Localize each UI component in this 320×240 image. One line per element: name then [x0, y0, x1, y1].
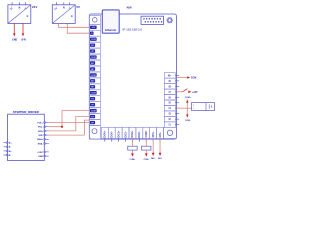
svg-text:ENA+: ENA+ — [37, 138, 44, 141]
svg-text:+VDC: +VDC — [37, 152, 43, 154]
svg-text:1: 1 — [193, 105, 194, 107]
svg-text:NIA: NIA — [127, 5, 133, 9]
svg-text:Ethernet: Ethernet — [105, 28, 116, 32]
svg-text:DO0-: DO0- — [109, 131, 113, 137]
svg-text:DO1-: DO1- — [123, 131, 127, 137]
svg-text:COM-: COM- — [185, 120, 191, 122]
svg-text:DO2+: DO2+ — [130, 130, 134, 137]
svg-text:I0+: I0+ — [168, 74, 172, 77]
svg-text:AO: AO — [91, 62, 94, 65]
svg-text:24V-: 24V- — [158, 132, 162, 137]
svg-text:DIR+: DIR+ — [38, 131, 44, 133]
svg-text:~: ~ — [10, 6, 13, 11]
svg-text:PUL-: PUL- — [38, 127, 43, 129]
svg-text:COM+: COM+ — [130, 159, 137, 161]
svg-text:DO0+: DO0+ — [103, 130, 107, 137]
svg-text:=: = — [26, 14, 28, 18]
svg-text:COM: COM — [191, 78, 196, 80]
svg-text:5V: 5V — [76, 5, 80, 9]
svg-text:COM+: COM+ — [185, 97, 192, 99]
svg-text:DO: DO — [91, 45, 94, 47]
svg-text:COM: COM — [91, 57, 96, 59]
svg-text:COM: COM — [144, 131, 148, 137]
svg-text:A-: A- — [9, 146, 12, 149]
svg-text:DIR-: DIR- — [39, 135, 44, 137]
svg-text:COM: COM — [91, 110, 96, 112]
svg-text:+24V: +24V — [21, 38, 27, 41]
svg-text:ENA-: ENA- — [38, 142, 44, 145]
svg-text:=: = — [71, 14, 73, 18]
svg-text:YO: YO — [91, 99, 94, 101]
svg-text:DO2-: DO2- — [137, 131, 141, 137]
svg-text:COM: COM — [91, 39, 96, 41]
svg-text:24V+: 24V+ — [151, 131, 155, 138]
svg-text:GND: GND — [38, 156, 43, 158]
svg-text:DO1+: DO1+ — [116, 130, 120, 137]
svg-text:COM: COM — [91, 75, 96, 77]
svg-text:B-: B- — [9, 155, 12, 157]
svg-text:IP 192.168.0.0: IP 192.168.0.0 — [123, 28, 143, 32]
svg-text:COM: COM — [91, 93, 96, 95]
svg-text:+24V: +24V — [192, 91, 198, 94]
svg-text:BO: BO — [91, 81, 94, 83]
svg-text:2: 2 — [193, 108, 194, 110]
svg-text:24V: 24V — [32, 5, 37, 9]
svg-text:24V-: 24V- — [158, 157, 162, 160]
svg-text:GND: GND — [12, 39, 17, 41]
svg-text:PUL+: PUL+ — [37, 122, 43, 124]
svg-text:XO: XO — [91, 116, 94, 118]
svg-text:24V+: 24V+ — [151, 157, 157, 160]
svg-text:~: ~ — [54, 6, 57, 11]
svg-text:STEPPER_DRIVER: STEPPER_DRIVER — [13, 110, 40, 114]
svg-text:COM-: COM- — [144, 159, 150, 161]
